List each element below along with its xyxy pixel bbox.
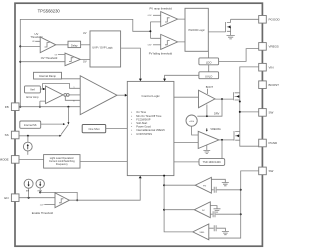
svg-text:PV falling threshold: PV falling threshold: [149, 52, 173, 56]
svg-text:MODE: MODE: [0, 158, 9, 162]
svg-text:a: a: [74, 86, 75, 88]
svg-text:PGOOD: PGOOD: [269, 17, 281, 21]
svg-text:TPS568230: TPS568230: [38, 9, 61, 14]
svg-text:SS: SS: [5, 133, 9, 137]
svg-text:OV: OV: [55, 55, 58, 57]
svg-text:On Time: On Time: [136, 110, 146, 114]
svg-text:Delay: Delay: [71, 44, 78, 48]
svg-text:FB: FB: [5, 105, 9, 109]
svg-text:Min On Time/Off Time: Min On Time/Off Time: [136, 114, 162, 118]
svg-text:SW: SW: [269, 111, 274, 115]
svg-text:LDO: LDO: [206, 61, 212, 65]
svg-text:0.9V: 0.9V: [148, 15, 152, 17]
svg-text:•: •: [131, 122, 132, 125]
svg-text:Control Logic: Control Logic: [141, 94, 160, 98]
svg-text:UVP/OVP/SS: UVP/OVP/SS: [136, 132, 152, 136]
svg-text:FCCM/SKIP: FCCM/SKIP: [136, 117, 150, 121]
svg-text:Enable Threshold: Enable Threshold: [32, 211, 54, 215]
svg-text:b: b: [74, 100, 75, 102]
svg-text:OV Threshold: OV Threshold: [41, 56, 58, 60]
svg-text:•: •: [131, 111, 132, 114]
svg-text:•: •: [131, 133, 132, 136]
svg-text:PG: PG: [203, 185, 206, 187]
svg-text:0.8V: 0.8V: [148, 45, 152, 47]
svg-text:UVP / OVP Logic: UVP / OVP Logic: [92, 45, 113, 49]
svg-text:UV: UV: [83, 31, 87, 35]
svg-text:VIN: VIN: [269, 65, 274, 69]
svg-text:DRV: DRV: [214, 111, 220, 115]
svg-text:PGND: PGND: [269, 141, 279, 145]
svg-text:•: •: [131, 118, 132, 121]
svg-text:Error Amp: Error Amp: [26, 95, 39, 99]
svg-text:BOOST: BOOST: [269, 83, 280, 87]
svg-text:DC: DC: [202, 210, 206, 212]
svg-text:Internal Ramp: Internal Ramp: [39, 74, 56, 78]
svg-text:•: •: [131, 115, 132, 118]
svg-text:Frequency: Frequency: [56, 163, 69, 166]
svg-text:1.2V: 1.2V: [40, 204, 44, 206]
svg-text:•: •: [131, 129, 132, 132]
svg-text:VREG5: VREG5: [269, 45, 280, 49]
svg-text:Power Good: Power Good: [136, 125, 151, 129]
svg-text:EN: EN: [4, 196, 8, 200]
svg-text:One Shot: One Shot: [89, 127, 100, 131]
svg-text:•: •: [131, 126, 132, 129]
svg-text:TSD 160C/140C: TSD 160C/140C: [203, 161, 222, 164]
svg-text:BOOT: BOOT: [206, 85, 214, 89]
svg-text:PV ramp threshold: PV ramp threshold: [150, 6, 173, 10]
svg-text:OV: OV: [83, 59, 87, 63]
svg-text:IEN: IEN: [26, 190, 30, 192]
svg-text:Internal SS: Internal SS: [24, 123, 37, 127]
svg-text:VSEL: VSEL: [199, 232, 205, 234]
svg-text:Internal/External VREG5: Internal/External VREG5: [136, 128, 165, 132]
svg-text:VREG5A: VREG5A: [210, 127, 221, 131]
svg-text:Soft-Start: Soft-Start: [136, 121, 147, 125]
svg-text:PGOOD Logic: PGOOD Logic: [188, 28, 205, 32]
svg-text:SW: SW: [269, 169, 274, 173]
svg-text:UV: UV: [32, 41, 35, 43]
svg-text:UVLO: UVLO: [205, 75, 212, 79]
svg-text:Vref: Vref: [30, 88, 35, 92]
